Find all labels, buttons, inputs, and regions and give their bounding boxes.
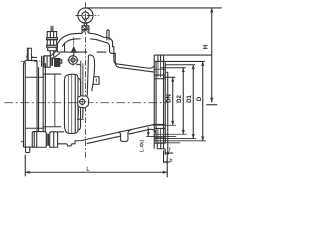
svg-text:D2: D2	[177, 95, 183, 103]
svg-text:DN: DN	[167, 94, 173, 103]
svg-text:D1: D1	[187, 95, 193, 103]
svg-text:L: L	[86, 166, 90, 173]
svg-text:D: D	[197, 96, 203, 101]
svg-text:b: b	[169, 158, 172, 164]
svg-text:H: H	[204, 45, 210, 49]
svg-text:L-Φd: L-Φd	[140, 140, 146, 152]
